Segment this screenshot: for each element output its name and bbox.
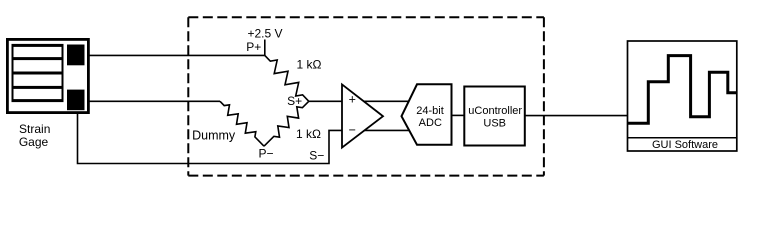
svg-text:1 kΩ: 1 kΩ: [296, 127, 321, 141]
svg-text:USB: USB: [483, 118, 506, 130]
svg-text:−: −: [349, 123, 356, 137]
svg-text:GUI Software: GUI Software: [652, 139, 718, 151]
svg-text:+: +: [349, 93, 356, 107]
svg-text:S+: S+: [287, 94, 302, 108]
svg-text:P+: P+: [246, 40, 261, 54]
svg-text:Gage: Gage: [19, 135, 49, 149]
svg-text:Strain: Strain: [19, 122, 50, 136]
svg-text:ADC: ADC: [419, 117, 442, 129]
svg-text:24-bit: 24-bit: [416, 105, 444, 117]
svg-text:+2.5 V: +2.5 V: [247, 27, 282, 41]
svg-text:1 kΩ: 1 kΩ: [297, 57, 322, 71]
svg-text:S−: S−: [309, 148, 324, 162]
svg-text:uController: uController: [468, 105, 522, 117]
svg-text:Dummy: Dummy: [192, 128, 236, 142]
svg-text:P−: P−: [258, 147, 273, 161]
